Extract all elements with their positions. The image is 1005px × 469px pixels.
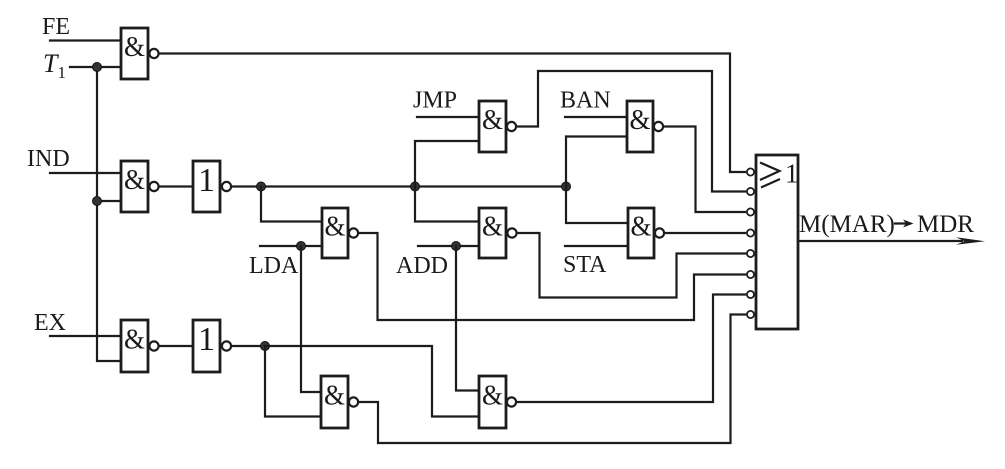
svg-text:FE: FE [42,14,70,40]
svg-text:&: & [482,104,503,136]
svg-text:1: 1 [198,162,215,199]
node LDA junction [297,242,306,251]
wire node A down to gate G4 input 1 [261,187,322,222]
node B (x=415) [411,182,420,191]
node D (x=265) [261,342,270,351]
wire N2 output to node D [232,345,265,347]
NAND gate G6 (ADD) [479,208,506,258]
NAND gate G8 (lower left) [321,376,348,428]
wire G7 output to OR input 3 [664,127,745,213]
bubble U1 input 3 [747,208,754,215]
wire JMP input to gate G5 [417,116,479,118]
NAND gate G10 (STA) [628,208,654,258]
bubble U1 input 1 [747,168,754,175]
wire G3 output to inverter N2 [160,345,194,347]
bubble G1 output [149,49,158,58]
wire U1 output arrow [798,240,962,242]
bubble G8 output [349,397,358,406]
wire LDA branch down to gate G8 input 1 [301,246,321,392]
inverter N2 [193,320,220,372]
wire T1 vertical bus x=97 [97,67,121,361]
wire node B up to gate G5 input 2 [415,141,479,187]
wire T1 branch to gate G2 [97,200,121,202]
node ADD junction [452,242,461,251]
wire G8 output to OR input 8 [359,315,745,444]
svg-text:&: & [124,31,145,63]
wire BAN input to gate G7 [565,116,627,118]
svg-text:MDR: MDR [917,211,974,238]
wire G5 output to OR input 2 [517,71,745,192]
inverter N1 [193,161,220,212]
wire node C up to gate G7 input 2 [566,137,627,187]
svg-text:&: & [124,324,145,356]
bubble G7 output [654,122,663,131]
bubble U1 input 4 [747,229,754,236]
svg-text:LDA: LDA [249,253,299,279]
svg-text:STA: STA [563,252,607,278]
wire IND input to gate G2 [50,172,121,174]
bubble G3 output [149,341,158,350]
svg-text:&: & [124,164,145,196]
wire T1 input to gate G1 [70,66,121,68]
bubble U1 input 5 [747,250,754,257]
wire LDA input to gate G4 [260,245,322,247]
svg-text:&: & [631,211,652,243]
svg-text:ADD: ADD [396,253,448,279]
wire FE input to gate G1 [50,39,121,41]
svg-text:BAN: BAN [560,88,611,114]
NAND gate G4 (LDA) [322,208,348,258]
wire node D down to gate G8 input 2 [265,346,321,417]
bubble G5 output [507,122,516,131]
node C (x=566) [562,182,571,191]
NAND gate G3 (EX·T1) [121,320,148,372]
NAND gate G9 (lower right) [479,376,506,428]
bubble G6 output [507,228,516,237]
node T1 junction IND row [93,197,102,206]
svg-text:EX: EX [34,310,66,336]
svg-text:M(MAR): M(MAR) [799,211,895,238]
svg-text:&: & [325,211,346,243]
NAND gate G2 (IND·T1) [121,161,148,212]
wire node C down to gate G10 input 1 [566,187,628,224]
wire ADD input to gate G6 [418,245,479,247]
arrowhead U1 output [956,237,985,245]
svg-text:&: & [324,380,345,412]
wire G10 output to OR input 4 [665,232,745,234]
wire node D right to gate G9 input 2 [265,346,479,417]
wire EX input to gate G3 [50,335,121,337]
wire G4 output to OR input 6 [359,233,745,320]
svg-text:&: & [630,104,651,136]
svg-text:1: 1 [785,159,799,189]
bubble U1 input 2 [747,188,754,195]
OR gate U1 (>=1) [756,155,798,329]
wire G1 output to OR input 1 [160,54,746,173]
wire N1 output main bus [232,185,566,187]
bubble N1 output [222,182,231,191]
bubble G9 output [507,397,516,406]
bubble G10 output [655,228,664,237]
node T1 junction top [93,63,102,72]
bubble G4 output [349,228,358,237]
NAND gate G7 (BAN) [627,101,653,152]
wire G2 output to inverter N1 [160,185,194,187]
svg-text:&: & [482,380,503,412]
node A (x=261) [257,182,266,191]
bubble G2 output [149,182,158,191]
bubble U1 input 8 [747,311,754,318]
NAND gate G1 (FE·T1) [121,28,148,79]
bubble U1 input 6 [747,271,754,278]
wire node B down to gate G6 input 1 [415,187,479,222]
svg-text:1: 1 [198,321,215,358]
wire STA input to gate G10 [565,245,628,247]
bubble U1 input 7 [747,291,754,298]
svg-text:JMP: JMP [413,88,457,114]
wire G6 output to OR input 5 [518,233,746,298]
label arrow glyph [895,222,909,224]
NAND gate G5 (JMP) [479,101,506,152]
bubble N2 output [222,341,231,350]
svg-text:IND: IND [27,146,70,172]
wire G9 output to OR input 7 [517,295,745,403]
svg-text:&: & [482,211,503,243]
wire ADD branch down to gate G9 input 1 [456,246,479,391]
